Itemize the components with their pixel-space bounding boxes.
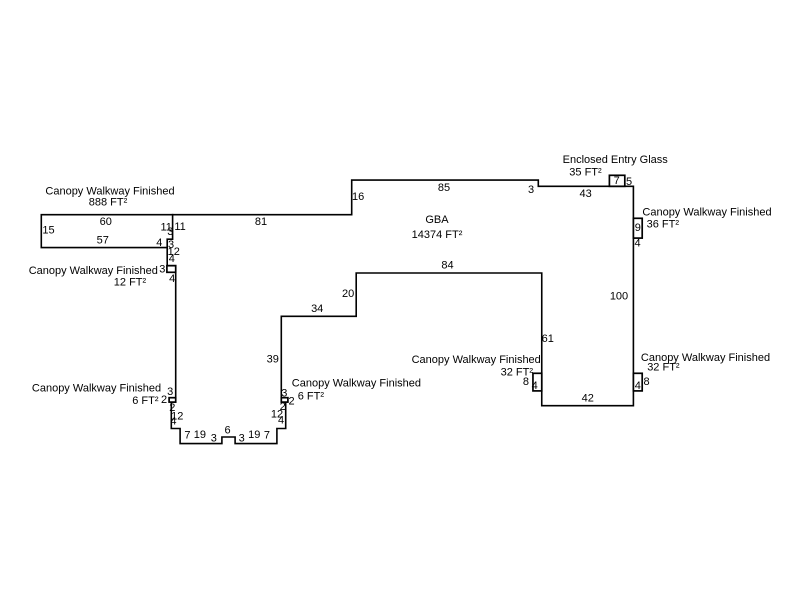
svg-text:57: 57 [97,234,109,246]
svg-text:84: 84 [441,260,453,272]
canopy box 32 right [633,373,642,391]
svg-text:3: 3 [159,264,165,276]
svg-text:4: 4 [170,416,176,428]
svg-text:4: 4 [156,237,162,249]
svg-text:Canopy Walkway Finished: Canopy Walkway Finished [32,383,161,395]
svg-text:32 FT²: 32 FT² [647,361,680,373]
svg-text:20: 20 [342,288,354,300]
svg-text:GBA: GBA [425,214,449,226]
svg-text:4: 4 [635,380,641,392]
svg-text:6: 6 [225,425,231,437]
canopy box 6 left [169,398,176,402]
svg-text:7: 7 [264,429,270,441]
svg-text:5: 5 [626,176,632,188]
svg-text:6 FT²: 6 FT² [298,391,325,403]
canopy box 6 right [281,398,288,402]
svg-text:3: 3 [528,184,534,196]
svg-text:85: 85 [438,182,450,194]
svg-text:11: 11 [174,221,185,233]
svg-text:Canopy Walkway Finished: Canopy Walkway Finished [45,185,174,197]
GBA outline [167,180,633,444]
svg-text:7: 7 [184,429,190,441]
svg-text:Canopy Walkway Finished: Canopy Walkway Finished [642,206,771,218]
svg-text:19: 19 [194,429,206,441]
svg-text:3: 3 [239,432,245,444]
canopy box 36 [633,218,642,238]
svg-text:36 FT²: 36 FT² [647,218,680,230]
svg-text:6 FT²: 6 FT² [132,395,159,407]
svg-text:Canopy Walkway Finished: Canopy Walkway Finished [292,377,421,389]
svg-text:Enclosed Entry Glass: Enclosed Entry Glass [563,154,669,166]
svg-text:19: 19 [248,429,260,441]
svg-text:14374 FT²: 14374 FT² [412,229,463,241]
svg-text:43: 43 [579,188,591,200]
svg-text:39: 39 [267,353,279,365]
svg-text:34: 34 [311,303,323,315]
svg-text:100: 100 [610,291,628,303]
svg-text:Canopy Walkway Finished: Canopy Walkway Finished [29,265,158,277]
svg-text:15: 15 [42,225,54,237]
svg-text:4: 4 [169,253,175,265]
svg-text:61: 61 [542,333,554,345]
svg-text:9: 9 [635,222,641,234]
svg-text:3: 3 [211,432,217,444]
svg-text:4: 4 [532,380,538,392]
svg-text:3: 3 [281,387,287,399]
svg-text:4: 4 [278,415,284,427]
svg-text:888 FT²: 888 FT² [89,197,128,209]
svg-text:42: 42 [582,393,594,405]
canopy box 32 left [533,373,542,391]
svg-text:Canopy Walkway Finished: Canopy Walkway Finished [412,354,541,366]
svg-text:2: 2 [288,396,294,408]
svg-text:4: 4 [169,273,175,285]
svg-text:7: 7 [614,175,620,187]
svg-text:35 FT²: 35 FT² [569,166,602,178]
svg-text:81: 81 [255,216,267,228]
svg-text:8: 8 [523,376,529,388]
svg-text:60: 60 [100,216,112,228]
svg-text:8: 8 [644,376,650,388]
svg-text:3: 3 [167,226,173,238]
svg-text:12 FT²: 12 FT² [114,277,147,289]
svg-text:4: 4 [635,238,641,250]
svg-text:16: 16 [352,191,364,203]
canopy box 12 [167,266,176,273]
enclosed entry glass box 35 [609,175,624,186]
canopy strip 888 [41,215,172,248]
svg-text:3: 3 [167,386,173,398]
